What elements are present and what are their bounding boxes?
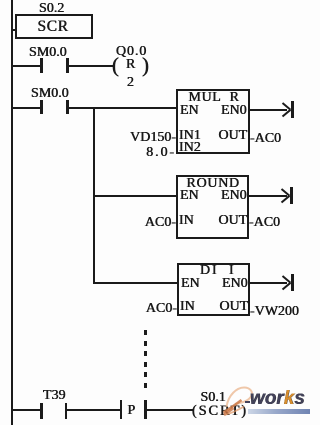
DI I box: [177, 263, 250, 316]
e-works logo text works: [250, 389, 305, 408]
arrow head DI: [277, 273, 294, 293]
left power rail: [11, 0, 13, 425]
ROUND pin EN: [180, 189, 199, 203]
contact T39 right bar: [65, 403, 68, 419]
MUL R pin IN2: [179, 141, 201, 155]
contact SM0.0 (2) right bar: [66, 100, 69, 115]
wire branch to DI EN: [93, 282, 177, 284]
coil operand 2: [127, 76, 134, 90]
ROUND pin IN: [179, 214, 194, 228]
contact P label: [128, 404, 136, 418]
operand AC0 into ROUND: [145, 216, 176, 230]
operand VW200 out of DI: [250, 305, 299, 319]
MUL R box: [176, 89, 250, 154]
ROUND pin OUT: [219, 214, 248, 228]
wire ENO of ROUND to arrow: [247, 195, 287, 197]
wire ENO of DI to arrow: [248, 282, 287, 284]
branch vertical wire: [93, 107, 95, 284]
coil Q0.0 label: [116, 45, 147, 59]
SCR box: [15, 14, 93, 39]
MUL R pin ENO: [221, 104, 247, 118]
SCR box label: [38, 19, 69, 35]
arrow terminal bar MUL: [291, 101, 294, 118]
operand AC0 into DI: [146, 302, 177, 316]
MUL R pin EN: [180, 104, 199, 118]
ROUND pin ENO: [221, 189, 247, 203]
DI pin OUT: [220, 300, 249, 314]
wire P to SCRT coil: [147, 409, 194, 411]
DI pin EN: [181, 277, 200, 291]
contact SM0.0 label (rung 1): [29, 46, 67, 60]
contact T39 label: [43, 389, 66, 403]
operand 8.0: [146, 146, 176, 160]
e-works logo swoosh e: [221, 383, 257, 423]
MUL R title: [189, 91, 240, 105]
DI I title: [200, 264, 235, 278]
arrow head MUL: [277, 100, 294, 120]
contact SM0.0 right bar: [66, 58, 69, 73]
MUL R pin IN1: [179, 129, 201, 143]
MUL R pin OUT: [219, 129, 248, 143]
arrow head ROUND: [276, 186, 293, 206]
arrow terminal bar ROUND: [290, 187, 293, 204]
e-works logo hyphen: [245, 401, 251, 404]
contact SM0.0 left bar: [40, 58, 43, 73]
contact P right bar: [144, 400, 147, 419]
continuation dotted line: [144, 330, 147, 335]
ROUND title: [187, 177, 240, 191]
contact SM0.0 label (rung 2): [31, 87, 69, 101]
wire T39 to P contact: [67, 409, 120, 411]
wire contact 1 to coil: [69, 65, 114, 67]
wire rail to contact 1: [13, 65, 40, 67]
DI pin IN: [180, 300, 195, 314]
operand AC0 out of MUL: [250, 132, 281, 146]
operand VD150: [130, 131, 176, 145]
coil (SCRT): [192, 404, 248, 419]
wire rail to contact T39: [13, 409, 40, 411]
contact P left bar: [120, 400, 123, 419]
arrow terminal bar DI: [291, 274, 294, 291]
e-works logo underline bar: [248, 409, 310, 414]
DI pin ENO: [222, 277, 248, 291]
contact SM0.0 (2) left bar: [40, 100, 43, 115]
wire contact 2 to MUL R box: [69, 107, 177, 109]
wire rail to SCR box: [13, 29, 16, 32]
node S0.2 label: [39, 2, 64, 16]
wire rail to contact 2: [13, 107, 40, 109]
ROUND box: [176, 175, 249, 239]
wire ENO of MUL to arrow: [248, 109, 287, 111]
coil S0.1 label: [201, 391, 226, 405]
contact T39 left bar: [40, 403, 43, 419]
wire branch to ROUND EN: [93, 195, 176, 197]
operand AC0 out of ROUND: [249, 216, 280, 230]
coil (R) reset: [112, 55, 119, 76]
